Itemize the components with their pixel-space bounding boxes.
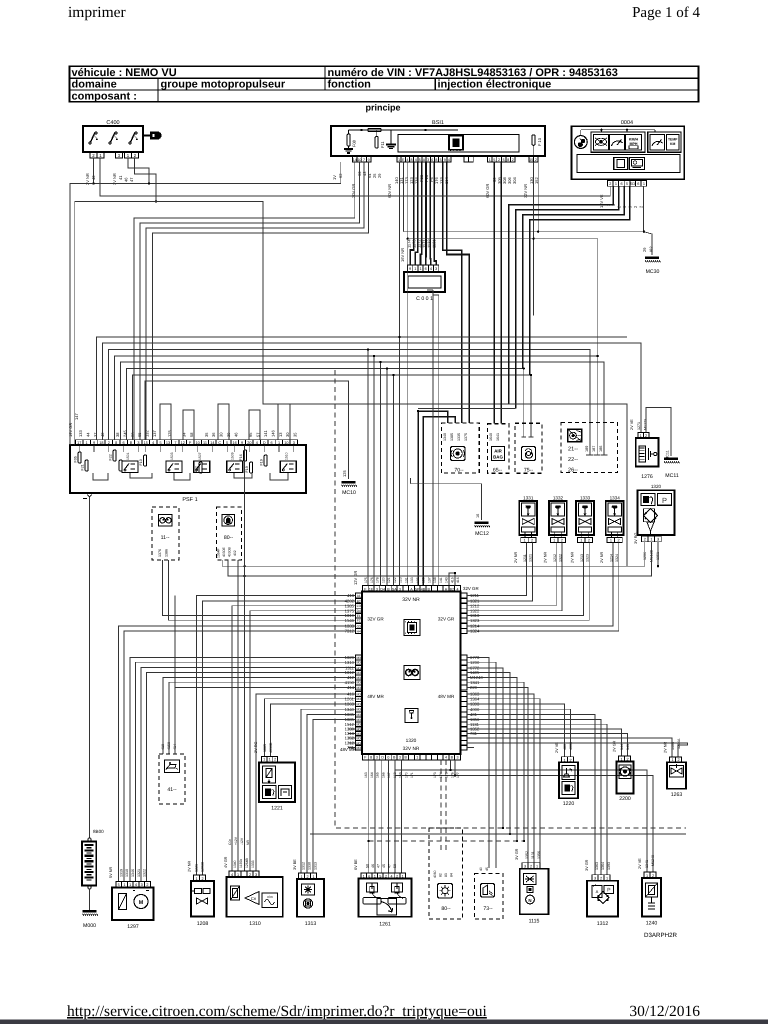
svg-text:2: 2 — [561, 538, 563, 542]
BSI1 pins small group — [464, 156, 469, 162]
bottom page bar — [0, 1020, 768, 1024]
cluster lower box — [577, 154, 680, 172]
svg-text:73--: 73-- — [483, 906, 492, 912]
svg-text:1364: 1364 — [601, 862, 605, 870]
svg-text:2: 2 — [531, 538, 533, 542]
svg-text:2V NR: 2V NR — [600, 552, 604, 563]
component 75 dashed box fan — [515, 423, 542, 473]
svg-text:2V NR: 2V NR — [514, 552, 518, 563]
svg-text:30: 30 — [285, 432, 290, 437]
svg-text:45: 45 — [382, 864, 386, 868]
svg-text:1333: 1333 — [251, 860, 255, 868]
wire cross to fuel pump rect — [509, 404, 628, 567]
svg-text:304: 304 — [512, 177, 517, 184]
ECU CPU icon — [404, 620, 420, 636]
svg-text:D: D — [381, 756, 384, 760]
svg-text:1312: 1312 — [597, 921, 609, 927]
svg-text:176: 176 — [370, 577, 374, 583]
wire 70 box to ECU 2 — [423, 417, 455, 586]
svg-text:4: 4 — [256, 441, 258, 445]
svg-text:3: 3 — [524, 865, 526, 869]
wire cluster to ECU feed — [516, 186, 619, 408]
ECU bottom wires to 1261 — [368, 760, 370, 873]
svg-text:2: 2 — [146, 883, 148, 887]
1297 pins — [116, 882, 122, 888]
svg-text:1297: 1297 — [127, 924, 139, 930]
wire battery to ground — [89, 889, 91, 910]
svg-text:133: 133 — [410, 577, 414, 583]
svg-text:1330: 1330 — [308, 862, 312, 870]
svg-text:1340: 1340 — [443, 433, 447, 441]
svg-text:3: 3 — [376, 756, 378, 760]
svg-text:1376: 1376 — [158, 549, 162, 557]
svg-text:2V GR: 2V GR — [613, 740, 617, 752]
svg-text:13: 13 — [278, 432, 283, 437]
svg-text:M3: M3 — [356, 746, 361, 750]
dashed wire rail — [335, 370, 686, 828]
svg-text:2V VE: 2V VE — [638, 858, 642, 869]
component 1263 — [667, 762, 686, 788]
ECU right pins group2 — [461, 655, 468, 660]
svg-text:4: 4 — [391, 874, 393, 878]
svg-text:20: 20 — [247, 441, 251, 445]
svg-text:80--: 80-- — [441, 906, 450, 912]
ECU right fan-out wires — [467, 658, 489, 869]
svg-text:3V RG: 3V RG — [634, 533, 638, 544]
svg-text:3V BE: 3V BE — [293, 859, 297, 870]
svg-text:1276: 1276 — [641, 474, 653, 480]
svg-text:402: 402 — [233, 550, 237, 556]
wires 11 box to ECU — [163, 560, 356, 616]
svg-text:2: 2 — [644, 538, 646, 542]
svg-text:F11: F11 — [380, 141, 385, 148]
wire band PSF1-5 to 21 box — [121, 362, 605, 455]
component 70 dashed box — [442, 423, 480, 473]
svg-text:3: 3 — [255, 873, 257, 877]
svg-text:1334: 1334 — [610, 496, 621, 501]
svg-text:3: 3 — [657, 538, 659, 542]
cluster bulb icon — [574, 136, 587, 149]
svg-text:1: 1 — [536, 865, 538, 869]
svg-text:-12V: -12V — [240, 837, 244, 845]
svg-text:/62: /62 — [649, 246, 654, 252]
svg-text:11: 11 — [203, 441, 207, 445]
wire PSF1 to 1310 long — [244, 445, 246, 871]
svg-text:16: 16 — [232, 441, 236, 445]
PSF1 pin loop 2 — [183, 410, 194, 440]
PSF1 pin loop 1 — [160, 404, 171, 440]
ECU left short stubs — [348, 723, 356, 725]
svg-text:35: 35 — [204, 432, 209, 437]
svg-text:480: 480 — [563, 744, 567, 750]
wire ECU top feeder 6 — [427, 289, 433, 291]
svg-text:1115: 1115 — [529, 919, 540, 925]
svg-text:47: 47 — [129, 177, 134, 182]
PSF1 internal fuses — [78, 452, 81, 463]
svg-text:1320: 1320 — [651, 484, 662, 489]
svg-text:4: 4 — [152, 441, 154, 445]
svg-text:B: B — [130, 441, 133, 445]
svg-text:1263: 1263 — [671, 792, 683, 798]
svg-text:4: 4 — [406, 158, 408, 162]
svg-text:8: 8 — [370, 756, 372, 760]
wires to 1240 — [395, 770, 647, 872]
svg-text:2: 2 — [588, 538, 590, 542]
svg-text:9: 9 — [241, 441, 243, 445]
BSI1 fuse F11 — [375, 137, 378, 149]
svg-text:D4: D4 — [380, 587, 385, 591]
svg-text:169: 169 — [399, 772, 403, 778]
svg-text:5: 5 — [118, 883, 120, 887]
svg-text:2V NR: 2V NR — [571, 552, 575, 563]
wire ECU top feeder 5 — [393, 375, 395, 586]
svg-text:1386: 1386 — [165, 549, 169, 557]
svg-text:1: 1 — [419, 267, 421, 271]
svg-text:8: 8 — [411, 158, 413, 162]
PSF1 internal relays — [122, 461, 138, 473]
C400 pins — [90, 153, 97, 159]
wire BSI right pi shape — [408, 239, 598, 455]
svg-text:22--: 22-- — [568, 457, 578, 463]
svg-text:MC12: MC12 — [475, 531, 489, 537]
svg-text:3: 3 — [457, 756, 459, 760]
svg-text:1: 1 — [86, 441, 88, 445]
svg-text:M1240: M1240 — [651, 855, 655, 866]
svg-text:4000: 4000 — [569, 742, 573, 750]
svg-text:175: 175 — [445, 772, 449, 778]
svg-text:137: 137 — [427, 577, 431, 583]
svg-text:173: 173 — [433, 772, 437, 778]
svg-text:2: 2 — [498, 158, 500, 162]
svg-text:141: 141 — [626, 744, 630, 750]
svg-text:M3: M3 — [356, 671, 361, 675]
svg-text:1340: 1340 — [233, 860, 237, 868]
component 80 dashed box lower — [429, 828, 463, 919]
svg-text:numéro de VIN : VF7AJ8HSL94853: numéro de VIN : VF7AJ8HSL94853163 / OPR … — [328, 67, 618, 79]
PSF1 bottom terminal — [88, 493, 92, 497]
BSI1 inner module box — [398, 135, 519, 153]
wire BSI to 70 box bold 2 — [447, 162, 470, 423]
svg-text:KM/H: KM/H — [629, 138, 639, 142]
svg-text:143: 143 — [445, 577, 449, 583]
component 1240 — [642, 878, 661, 917]
component 1115 — [520, 869, 549, 915]
svg-text:1: 1 — [123, 883, 125, 887]
svg-text:39: 39 — [226, 432, 231, 437]
svg-text:21--: 21-- — [568, 447, 578, 453]
svg-text:1: 1 — [195, 877, 197, 881]
svg-text:G3: G3 — [357, 624, 361, 628]
ECU left pins group2 — [356, 655, 363, 660]
svg-text:3: 3 — [137, 441, 139, 445]
svg-text:+12V: +12V — [234, 836, 238, 845]
component 65 dashed box airbag — [488, 424, 509, 474]
solid bus horizontal — [310, 833, 686, 835]
component 2200 horn — [617, 761, 634, 793]
BSI1 internal ground — [390, 130, 392, 144]
svg-text:1261: 1261 — [379, 922, 391, 928]
svg-text:4060: 4060 — [433, 870, 437, 878]
ECU left pins group1 — [356, 593, 363, 598]
svg-text:45: 45 — [485, 867, 489, 871]
ECU right wires to injectors — [467, 543, 527, 596]
svg-text:8: 8 — [507, 158, 509, 162]
ECU top pin strip — [363, 586, 369, 592]
svg-text:1641: 1641 — [496, 433, 500, 441]
wire ECU top feeder 7 — [434, 294, 439, 296]
svg-text:32V NR: 32V NR — [402, 597, 420, 603]
svg-text:1: 1 — [650, 538, 652, 542]
svg-text:176: 176 — [450, 772, 454, 778]
svg-text:5: 5 — [419, 158, 421, 162]
svg-text:83: 83 — [444, 873, 448, 877]
svg-text:6: 6 — [637, 182, 639, 186]
svg-text:2: 2 — [396, 874, 398, 878]
wire 80 box to 1310 — [237, 560, 239, 871]
svg-text:1: 1 — [278, 441, 280, 445]
svg-text:1: 1 — [269, 758, 271, 762]
svg-text:135: 135 — [416, 577, 420, 583]
svg-text:principe: principe — [365, 103, 400, 113]
svg-text:5: 5 — [626, 182, 628, 186]
svg-text:1356: 1356 — [537, 851, 541, 859]
svg-text:50: 50 — [366, 864, 370, 868]
svg-text:4: 4 — [135, 883, 137, 887]
wire BSI pin9 to PSF1 — [153, 162, 369, 440]
wire BSI pin7 to PSF1 — [146, 162, 364, 440]
svg-text:58: 58 — [189, 432, 194, 437]
svg-text:P: P — [607, 887, 611, 893]
svg-text:410: 410 — [161, 744, 165, 750]
svg-text:14: 14 — [353, 158, 357, 162]
ground M000 — [83, 910, 97, 913]
1313 pins — [299, 873, 305, 879]
svg-text:1332: 1332 — [553, 496, 564, 501]
ECU left fan-out wires — [197, 596, 356, 876]
svg-text:injection électronique: injection électronique — [438, 79, 552, 91]
svg-text:M3: M3 — [356, 697, 361, 701]
svg-text:19V GR: 19V GR — [68, 423, 73, 437]
BSI1 battery symbol — [344, 148, 353, 150]
1312 pins — [592, 875, 598, 881]
svg-text:5: 5 — [503, 158, 505, 162]
svg-text:1: 1 — [414, 267, 416, 271]
svg-text:41--: 41-- — [167, 787, 176, 793]
svg-text:3: 3 — [399, 587, 401, 591]
pump diamond icon — [643, 509, 654, 522]
svg-text:41: 41 — [118, 175, 123, 180]
component 1312 — [587, 881, 618, 917]
wire left second rail — [75, 202, 509, 446]
svg-text:1264A: 1264A — [677, 738, 681, 749]
svg-text:4: 4 — [231, 873, 233, 877]
svg-text:1220: 1220 — [563, 801, 575, 807]
svg-text:1: 1 — [620, 757, 622, 761]
svg-text:M3: M3 — [356, 686, 361, 690]
svg-text:1510: 1510 — [284, 452, 288, 460]
wire C400 jog 1 — [128, 158, 149, 184]
svg-text:187: 187 — [592, 446, 596, 452]
svg-text:1: 1 — [610, 538, 612, 542]
wire BSI to 65 box 1 — [493, 162, 495, 424]
fuse box PSF1 — [70, 445, 306, 493]
svg-text:12V GR: 12V GR — [353, 571, 358, 585]
svg-text:F10: F10 — [139, 459, 143, 465]
svg-text:1: 1 — [640, 434, 642, 438]
connector C400 ignition switch — [83, 126, 143, 152]
svg-text:2V RG: 2V RG — [254, 742, 258, 753]
svg-text:2: 2 — [617, 538, 619, 542]
wire band PSF1-6 to 75 box — [127, 369, 524, 440]
svg-text:1503: 1503 — [170, 452, 174, 460]
component 73 dashed box — [474, 874, 503, 920]
svg-text:7: 7 — [363, 158, 365, 162]
wire BSI pin14 to PSF1 — [134, 162, 355, 440]
1263 pins — [670, 757, 676, 762]
svg-text:TEMP: TEMP — [668, 138, 678, 142]
svg-text:8: 8 — [115, 441, 117, 445]
1276 pins — [638, 433, 643, 439]
svg-text:SA: SA — [392, 587, 397, 591]
svg-text:4B: 4B — [421, 587, 426, 591]
svg-text:415: 415 — [450, 577, 454, 583]
svg-text:1335: 1335 — [457, 433, 461, 441]
svg-text:1352: 1352 — [525, 851, 529, 859]
svg-text:5: 5 — [160, 441, 162, 445]
svg-text:4030E: 4030E — [222, 546, 226, 557]
svg-text:2: 2 — [569, 758, 571, 762]
svg-text:48V MR: 48V MR — [367, 694, 384, 699]
wire cross to ECU top — [418, 408, 516, 410]
svg-text:1264B: 1264B — [245, 857, 249, 868]
svg-text:47: 47 — [377, 864, 381, 868]
BSI1 pins right group — [488, 156, 493, 162]
wires 80 box to fuel pump rail — [222, 542, 645, 567]
component 1261 preheat — [359, 879, 412, 917]
cluster gauges box 1 — [591, 132, 645, 152]
component 1297 motor unit — [112, 888, 154, 921]
svg-text:C: C — [218, 441, 221, 445]
svg-text:2: 2 — [535, 158, 537, 162]
BSI1 internal bus — [349, 129, 459, 131]
svg-text:2: 2 — [249, 873, 251, 877]
1310 pins — [229, 871, 235, 877]
BSI1 pin far right — [529, 156, 534, 162]
svg-text:M3: M3 — [356, 713, 361, 717]
svg-text:5P: 5P — [415, 587, 420, 591]
svg-text:groupe motopropulseur: groupe motopropulseur — [161, 79, 286, 91]
svg-text:10: 10 — [195, 441, 199, 445]
svg-text:29: 29 — [377, 173, 382, 178]
svg-text:F 10: F 10 — [537, 137, 542, 146]
svg-text:1: 1 — [416, 756, 418, 760]
component 1208 — [191, 881, 214, 917]
svg-text:12: 12 — [181, 441, 185, 445]
svg-text:146: 146 — [270, 430, 275, 437]
svg-text:5D: 5D — [630, 182, 635, 186]
svg-text:4: 4 — [445, 756, 447, 760]
svg-text:32V GR: 32V GR — [438, 617, 455, 622]
svg-text:3: 3 — [399, 756, 401, 760]
svg-text:1346: 1346 — [131, 869, 135, 877]
svg-text:1310: 1310 — [125, 869, 129, 877]
svg-text:3: 3 — [293, 441, 295, 445]
svg-text:2V NR: 2V NR — [664, 742, 668, 753]
component 41 dashed box oil — [159, 754, 185, 804]
svg-text:16V NR: 16V NR — [400, 248, 405, 262]
svg-text:BSI1: BSI1 — [432, 120, 444, 126]
svg-text:2: 2 — [626, 757, 628, 761]
svg-text:1885: 1885 — [263, 744, 267, 752]
svg-text:29: 29 — [642, 247, 647, 252]
ground MC30 — [643, 186, 645, 232]
svg-text:15: 15 — [529, 158, 533, 162]
svg-text:0: 0 — [387, 756, 389, 760]
wire ECU top feeder 1 — [367, 350, 369, 586]
ECU right short stubs — [467, 747, 474, 749]
svg-text:3V GR: 3V GR — [585, 859, 589, 871]
svg-text:1: 1 — [489, 158, 491, 162]
svg-text:0004: 0004 — [621, 120, 633, 126]
svg-text:1312: 1312 — [302, 862, 306, 870]
wire C400 jog 2 — [135, 158, 157, 202]
svg-text:34: 34 — [182, 432, 187, 437]
PSF1 internal wires — [78, 445, 80, 452]
svg-text:171: 171 — [410, 772, 414, 778]
wire band PSF1-2 to 1276 — [103, 343, 642, 440]
svg-text:17: 17 — [77, 441, 81, 445]
svg-text:10: 10 — [284, 441, 288, 445]
svg-text:1385: 1385 — [450, 433, 454, 441]
svg-text:F21: F21 — [81, 464, 85, 470]
svg-text:1: 1 — [643, 182, 645, 186]
svg-text:NR: NR — [246, 840, 250, 845]
svg-text:1: 1 — [300, 875, 302, 879]
component 1276 sensor — [636, 438, 659, 466]
svg-text:KM: KM — [670, 142, 675, 146]
svg-text:2: 2 — [600, 877, 602, 881]
1220 pins — [562, 757, 568, 763]
ECU bottom dashed pair — [440, 760, 442, 850]
svg-text:144: 144 — [620, 744, 624, 750]
C001 pins — [408, 265, 413, 271]
svg-text:2: 2 — [201, 877, 203, 881]
svg-text:1: 1 — [263, 758, 265, 762]
svg-text:65--: 65-- — [493, 468, 502, 474]
svg-text:3: 3 — [141, 883, 143, 887]
svg-text:1240: 1240 — [646, 921, 658, 927]
svg-text:M3: M3 — [356, 736, 361, 740]
BSI1 CPU icon — [449, 136, 463, 150]
wire left rail from C400 — [92, 182, 94, 184]
wire BSI to 70 box bold 1 — [443, 162, 462, 423]
info table — [70, 66, 699, 101]
svg-text:MC10: MC10 — [342, 490, 356, 496]
svg-text:32V NR: 32V NR — [403, 746, 420, 752]
BSI1 fuse F10 — [532, 135, 535, 146]
wire band PSF1-3 to 21 box — [109, 350, 590, 456]
svg-text:MPH: MPH — [630, 142, 638, 146]
svg-text:1333: 1333 — [580, 496, 591, 501]
1115 pins — [522, 863, 528, 869]
svg-text:15: 15 — [144, 441, 148, 445]
svg-text:5: 5 — [440, 158, 442, 162]
svg-text:2V NR: 2V NR — [544, 552, 548, 563]
svg-text:4: 4 — [415, 158, 417, 162]
component 1310 — [227, 877, 283, 917]
instrument cluster 0004 — [572, 126, 685, 179]
wire ECU top elbow — [449, 573, 455, 586]
